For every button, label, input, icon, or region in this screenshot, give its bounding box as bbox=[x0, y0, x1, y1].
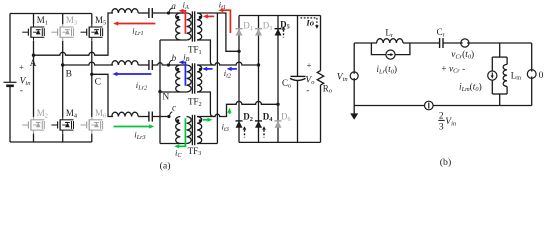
wire: TF1 primary bottom to N bus bbox=[160, 39, 187, 41]
wire: leg2 drain bbox=[62, 14, 64, 25]
transistor M3 (off, gray) bbox=[51, 24, 73, 41]
svg-text:b: b bbox=[172, 53, 177, 63]
node: leg2 midpoint bbox=[257, 63, 260, 66]
svg-text:M2: M2 bbox=[37, 108, 48, 119]
current arrow iC (green) bbox=[174, 118, 185, 148]
capacitor Co bbox=[290, 76, 306, 80]
wire bbox=[138, 116, 149, 118]
svg-text:+: + bbox=[307, 60, 312, 70]
svg-text:TF1: TF1 bbox=[188, 45, 202, 56]
node N bbox=[158, 90, 161, 93]
wire: rectifier top rail bbox=[239, 15, 321, 17]
wire: leg1 drain bbox=[33, 14, 35, 25]
wire: to node a bbox=[152, 12, 168, 14]
transistor M2 (off, gray) bbox=[22, 117, 44, 134]
current arrow iLr1 (red) bbox=[113, 21, 155, 25]
svg-text:vCr(t0): vCr(t0) bbox=[451, 49, 474, 60]
svg-text:+: + bbox=[19, 62, 24, 72]
wire: M4 source to rail bbox=[62, 134, 64, 142]
svg-text:M6: M6 bbox=[95, 108, 106, 119]
svg-text:iLr3: iLr3 bbox=[134, 129, 145, 140]
wire: leg3 source to node C bbox=[91, 41, 93, 75]
diode D3 (gray) bbox=[255, 29, 262, 36]
wire bbox=[138, 12, 149, 14]
inductor Lm bbox=[506, 57, 508, 64]
wire: (b) top bbox=[354, 42, 377, 44]
svg-text:iLr1: iLr1 bbox=[132, 26, 143, 37]
svg-text:M1: M1 bbox=[37, 15, 48, 26]
svg-text:Vo: Vo bbox=[305, 75, 315, 86]
DC source Vin battery bbox=[4, 14, 17, 143]
svg-text:it3: it3 bbox=[222, 122, 229, 133]
wire: phase c down to tank c bbox=[92, 74, 113, 116]
dashed current Io bbox=[301, 18, 319, 29]
wire: inverter top rail bbox=[10, 13, 92, 15]
Lm block branch bbox=[499, 43, 501, 57]
wire: TF1 secondary bottom elbow to it2 wire bbox=[197, 40, 214, 65]
wire: rectifier bottom rail bbox=[239, 141, 321, 143]
current arrow iA (red) bbox=[179, 9, 186, 34]
svg-text:+ vCr -: + vCr - bbox=[441, 64, 465, 74]
wire: phase a with hops over leg2 and leg3 bbox=[34, 13, 114, 55]
wire: leg2 lower bbox=[62, 65, 64, 117]
svg-text:D6: D6 bbox=[281, 112, 291, 123]
transformer TF2 bbox=[176, 63, 202, 93]
svg-text:Vin: Vin bbox=[445, 117, 456, 128]
source vCr(t0) bbox=[461, 39, 469, 47]
wire bbox=[443, 42, 461, 44]
Vin label bbox=[19, 62, 30, 96]
transformer TF3 bbox=[176, 115, 202, 145]
svg-text:Lm: Lm bbox=[511, 70, 522, 81]
transistor M4 bbox=[51, 117, 73, 134]
node: leg3 midpoint bbox=[276, 103, 279, 106]
diode D1 (gray) bbox=[236, 29, 243, 36]
inductor Lr1 bbox=[112, 9, 138, 13]
wire: leg2 source to node B bbox=[62, 41, 64, 65]
svg-text:Co: Co bbox=[282, 78, 291, 89]
wire: diode leg 2 bbox=[258, 16, 260, 143]
node c bbox=[167, 115, 170, 118]
label 2/3 Vin bbox=[438, 112, 456, 133]
wire: delta bus TF3 secondary to TF1 secondary top bbox=[216, 13, 218, 144]
wire: TF2 primary bottom to N bus bbox=[160, 91, 187, 93]
wire: to node b with hop over N bus bbox=[152, 63, 168, 65]
node C bbox=[90, 73, 93, 76]
svg-text:-: - bbox=[20, 86, 23, 96]
svg-text:TF3: TF3 bbox=[188, 146, 202, 157]
svg-text:Ro: Ro bbox=[323, 83, 332, 94]
diode D4 bbox=[255, 121, 262, 128]
wire: Co branch lower bbox=[297, 81, 299, 143]
svg-text:Io: Io bbox=[305, 17, 314, 27]
source Vin (b) bbox=[353, 43, 355, 72]
wire: M2 source to rail bbox=[33, 134, 35, 142]
svg-text:D1: D1 bbox=[243, 21, 253, 32]
current arrow it3a (green) bbox=[203, 118, 212, 122]
diode D2 bbox=[236, 121, 243, 128]
wire: TF3 primary bottom to N bus bbox=[160, 143, 187, 145]
wire: TF3 secondary bottom to delta bus bbox=[197, 143, 217, 145]
svg-text:Lr: Lr bbox=[385, 28, 394, 39]
capacitor Cr2 bbox=[149, 60, 152, 70]
dashed arrow at D5 bbox=[282, 26, 286, 37]
source 2/3 Vin bbox=[425, 101, 434, 110]
svg-text:iLm(t0): iLm(t0) bbox=[459, 82, 482, 93]
wire: TF2 secondary bottom elbow to TF3 secondary wire bbox=[197, 92, 214, 117]
current arrow it2a (blue) bbox=[202, 67, 212, 71]
wire: diode leg 3 bbox=[277, 16, 279, 143]
transistor M1 bbox=[22, 24, 44, 41]
transistor M6 (off, gray) bbox=[81, 117, 103, 134]
inductor Lr3 bbox=[112, 112, 138, 116]
svg-text:0: 0 bbox=[539, 71, 544, 81]
wire: inverter bottom rail bbox=[10, 141, 92, 143]
svg-text:3: 3 bbox=[439, 122, 444, 132]
ground bbox=[353, 106, 355, 115]
wire: Ro branch upper bbox=[320, 16, 322, 71]
svg-text:N: N bbox=[162, 93, 169, 103]
node: leg1 midpoint bbox=[237, 50, 240, 53]
svg-text:iC: iC bbox=[175, 148, 182, 159]
transistor M5 bbox=[81, 24, 103, 41]
svg-text:-: - bbox=[306, 86, 309, 96]
wire: leg3 lower bbox=[91, 74, 93, 117]
svg-text:a: a bbox=[171, 1, 176, 11]
svg-text:iLr2: iLr2 bbox=[136, 80, 147, 91]
node A bbox=[32, 54, 35, 57]
wire: leg3 drain bbox=[91, 14, 93, 25]
current source iLm(t0) bbox=[491, 57, 493, 71]
transformer TF1 bbox=[176, 11, 202, 41]
current arrow it2b (blue) bbox=[227, 67, 237, 71]
current arrow iLr2 (blue) bbox=[112, 72, 151, 76]
wire: N bus bbox=[159, 40, 161, 144]
source 0 bbox=[531, 43, 533, 70]
node B bbox=[61, 63, 64, 66]
svg-text:M5: M5 bbox=[95, 15, 106, 26]
svg-text:C: C bbox=[95, 77, 101, 87]
inductor Lr2 bbox=[112, 61, 138, 65]
svg-text:D4: D4 bbox=[263, 112, 274, 123]
svg-text:c: c bbox=[172, 103, 176, 113]
resistor Ro bbox=[317, 71, 323, 86]
wire: (b) bottom right bbox=[433, 105, 532, 107]
capacitor Cr1 bbox=[149, 8, 152, 18]
svg-text:M4: M4 bbox=[66, 108, 78, 119]
current source iLr(t0) branch bbox=[371, 43, 386, 55]
svg-text:(a): (a) bbox=[160, 160, 171, 171]
svg-text:it1: it1 bbox=[219, 0, 226, 11]
dashed arrow at D2 bbox=[243, 126, 247, 137]
svg-text:iLr(t0): iLr(t0) bbox=[376, 64, 397, 75]
inductor Lr bbox=[377, 39, 403, 43]
wire bbox=[138, 64, 149, 66]
node b bbox=[167, 63, 170, 66]
wire: leg1 lower bbox=[33, 55, 35, 117]
wire: to node c crossing N bus bbox=[152, 116, 169, 118]
label Vo bbox=[305, 60, 315, 96]
svg-text:Cr: Cr bbox=[437, 27, 446, 38]
wire: phase b with hop over leg3 bbox=[63, 62, 113, 65]
svg-text:D2: D2 bbox=[243, 112, 253, 123]
wire: leg1 source to node A bbox=[33, 41, 35, 55]
capacitor Cr3 bbox=[149, 112, 152, 122]
diode D5 bbox=[275, 29, 282, 36]
capacitor Cr bbox=[440, 38, 443, 48]
wire bbox=[469, 42, 532, 44]
svg-text:B: B bbox=[66, 69, 72, 79]
svg-text:iA: iA bbox=[183, 0, 189, 11]
wire: TF3 secondary (it3) to D5-D6 midpoint with hops bbox=[197, 101, 278, 116]
dashed arrow at D4 bbox=[262, 126, 266, 137]
wire: diode leg 1 bbox=[238, 16, 240, 143]
wire: TF2 secondary (it2) to D3-D4 midpoint with hops bbox=[197, 62, 258, 65]
wire: M6 source to rail bbox=[91, 134, 93, 142]
wire: a to TF1 primary bbox=[169, 12, 187, 14]
node a bbox=[167, 11, 170, 14]
svg-text:(b): (b) bbox=[440, 157, 451, 168]
svg-text:M3: M3 bbox=[66, 15, 77, 26]
current arrow it1 (red) bbox=[203, 8, 231, 33]
wire: TF1 secondary top to D1-D2 midpoint bbox=[197, 13, 239, 51]
wire bbox=[403, 42, 440, 44]
svg-text:TF2: TF2 bbox=[188, 97, 202, 108]
current arrow iLr3 (green) bbox=[114, 124, 155, 128]
wire: Co branch upper bbox=[297, 16, 299, 77]
diode D6 (gray) bbox=[275, 121, 282, 128]
current arrow it3b (green) bbox=[227, 108, 231, 114]
wire: Ro branch lower bbox=[320, 85, 322, 142]
svg-text:Vin: Vin bbox=[337, 72, 348, 83]
wire: b to TF2 primary bbox=[169, 64, 187, 66]
wire: (b) bottom left bbox=[354, 105, 424, 107]
current arrow iB (blue) bbox=[179, 60, 186, 86]
svg-text:D3: D3 bbox=[263, 21, 273, 32]
